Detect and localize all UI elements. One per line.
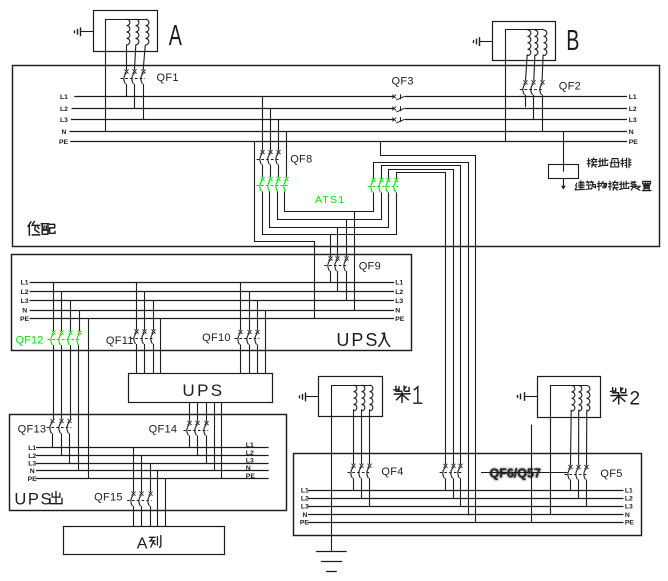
svg-text:L2: L2 [246, 450, 254, 457]
A row distribution box A列 [64, 527, 225, 555]
label 柴2 [610, 387, 640, 409]
wire L3 bus (diesel cabinet) [301, 504, 633, 511]
breaker QF14 (3-pole) [184, 421, 209, 463]
svg-text:L3: L3 [21, 298, 29, 305]
svg-text:QF9: QF9 [359, 261, 381, 273]
wire transformer B neutral to PE bus [505, 30, 507, 141]
label QF12 [16, 335, 44, 347]
svg-text:L2: L2 [301, 495, 309, 502]
svg-text:B: B [566, 25, 579, 57]
svg-text:L2: L2 [21, 289, 29, 296]
low-voltage cabinet 低配 enclosure box [13, 66, 660, 247]
label QF13 [18, 423, 47, 435]
label UPS [182, 381, 224, 400]
wire transformer B phases to QF2 [526, 55, 544, 81]
ground symbol at transformer B [474, 37, 493, 46]
transfer switch ATS1 right side (4-pole, green) [368, 178, 399, 193]
svg-text:PE: PE [59, 139, 69, 146]
svg-text:N: N [395, 308, 400, 315]
breaker QF2 (3-pole) [520, 80, 545, 131]
wire L3 bus (UPS input cabinet) [21, 298, 404, 305]
wire N bus (diesel cabinet) [303, 512, 630, 519]
UPS output cabinet box [10, 415, 287, 511]
svg-text:QF6/Q57: QF6/Q57 [490, 467, 541, 481]
wire transformer A phases to QF1 [127, 45, 146, 70]
svg-text:QF12: QF12 [16, 335, 44, 347]
svg-text:N: N [246, 465, 251, 472]
svg-text:L3: L3 [395, 298, 403, 305]
svg-text:L2: L2 [28, 453, 36, 460]
wire PE bus (UPS output cabinet) [28, 473, 269, 483]
label 建筑物接地装置 [575, 181, 651, 191]
wire 柴1 neutral down to earth [331, 385, 333, 551]
wire taps to QF10 [241, 282, 258, 330]
label UPS入 [336, 330, 389, 350]
wire taps to QF12 [54, 282, 80, 331]
svg-text:L3: L3 [28, 460, 36, 467]
svg-text:N: N [62, 129, 67, 136]
wire transformer A neutral to N bus [105, 19, 107, 131]
breaker QF9 (3-pole + N) [324, 257, 348, 301]
switch QF12 (4-pole, green) [48, 331, 82, 346]
svg-text:L3: L3 [301, 504, 309, 511]
breaker QF8 (3-pole) [257, 150, 281, 177]
wire UPS outputs down to QF14 [190, 402, 222, 478]
svg-text:QF2: QF2 [559, 81, 581, 93]
wire ATS1 output taps down to QF9 [331, 211, 355, 310]
wire L3 bus (main cabinet) [60, 117, 637, 124]
label QF9 [359, 261, 381, 273]
wire ATS1 U-link pole L3 [278, 192, 382, 220]
breaker QF10 (3-pole) [235, 330, 260, 373]
transformer B (box, winding coils, star-point) [493, 22, 556, 61]
svg-text:UPS: UPS [336, 330, 379, 350]
wire diesel feed to ATS1 right pole L3 [382, 166, 461, 465]
svg-text:A: A [169, 21, 183, 53]
label A列 [137, 535, 161, 552]
wire PE equipotential link to diesel PE [381, 142, 476, 523]
wire L3 bus (UPS output cabinet) [28, 457, 268, 467]
generator 柴2 (box, winding coils) [538, 377, 601, 418]
label 柴1 [394, 386, 423, 403]
wire L1 bus (main cabinet) [60, 94, 637, 101]
earthing electrode arrow [561, 179, 566, 190]
svg-text:QF8: QF8 [290, 153, 312, 165]
svg-text:L3: L3 [625, 504, 633, 511]
wire taps to QF11 [137, 282, 154, 330]
wire PE bus (diesel cabinet) [300, 520, 635, 527]
label 低配 [28, 221, 55, 235]
label QF3 [392, 75, 414, 87]
wire N bus to grounding busbar [563, 131, 565, 172]
svg-text:QF1: QF1 [157, 72, 179, 84]
svg-text:L1: L1 [246, 442, 254, 449]
wire L1 bus (UPS input cabinet) [21, 279, 404, 286]
wire L1 bus (diesel cabinet) [301, 487, 633, 494]
svg-text:L1: L1 [395, 279, 403, 286]
svg-text:L3: L3 [246, 457, 254, 464]
wire PE link UPS-in to UPS-out [88, 319, 90, 479]
label QF14 [149, 424, 178, 436]
wire 柴1 phases to QF4 [354, 409, 370, 464]
wire L2 bus (diesel cabinet) [301, 495, 633, 502]
wire L1 bus (UPS output cabinet) [28, 442, 268, 452]
svg-text:ATS1: ATS1 [315, 194, 345, 206]
svg-text:N: N [629, 129, 634, 136]
wire ATS1 U-link pole L1 [263, 192, 397, 235]
wire PE bus (main cabinet) [59, 139, 638, 146]
ground symbol at transformer A [75, 27, 94, 36]
svg-text:N: N [30, 468, 35, 475]
breaker QF13 (3-pole) [47, 419, 72, 463]
svg-text:L2: L2 [395, 289, 403, 296]
svg-text:QF4: QF4 [381, 466, 403, 478]
svg-text:L3: L3 [60, 117, 68, 124]
svg-text:L1: L1 [21, 279, 29, 286]
svg-text:PE: PE [395, 316, 405, 323]
wire N tap to UPS box [265, 310, 267, 373]
label QF8 [290, 153, 312, 165]
label UPS出 [14, 491, 62, 509]
svg-text:N: N [22, 308, 27, 315]
diesel distribution cabinet box [294, 454, 642, 536]
svg-text:QF13: QF13 [18, 423, 47, 435]
wire ATS1 U-link pole N [285, 192, 374, 212]
breaker QF3 bus tie [392, 94, 405, 123]
wire ATS1 U-link pole L2 [270, 192, 389, 228]
breaker QF4 (3-pole) [348, 464, 372, 507]
wire PE tap to UPS box [160, 319, 162, 374]
svg-text:L2: L2 [625, 495, 633, 502]
wire N bus (UPS input cabinet) [22, 308, 400, 315]
breaker QF11 (3-pole) [131, 330, 156, 374]
wire PE bus (UPS input cabinet) [20, 316, 405, 323]
label A [169, 21, 183, 53]
wire taps to QF15 [134, 448, 151, 493]
wire N and PE taps down to A row [158, 471, 166, 527]
breaker QF1 (3-pole) [121, 70, 146, 120]
svg-text:A: A [137, 535, 148, 552]
generator 柴1 (box, winding coils) [319, 377, 383, 417]
svg-text:QF5: QF5 [600, 468, 622, 480]
wire N bus (UPS output cabinet) [30, 465, 269, 475]
wire L2 bus (UPS input cabinet) [21, 289, 404, 296]
wire 柴2 neutral to N bus [550, 386, 552, 516]
label QF1 [157, 72, 179, 84]
label QF4 [381, 466, 403, 478]
svg-text:L3: L3 [629, 117, 637, 124]
label QF10 [202, 332, 231, 344]
wire 柴2 phases to QF5 [571, 410, 587, 466]
svg-text:L1: L1 [60, 94, 68, 101]
svg-text:QF3: QF3 [392, 75, 414, 87]
UPS unit box [129, 374, 273, 403]
wire N bus down to ATS1 pole 4 [286, 131, 288, 177]
wire taps L1,L2,L3 down to QF8 [263, 97, 279, 151]
label 接地母排 [587, 158, 631, 168]
svg-text:QF11: QF11 [106, 335, 134, 347]
wire stub to PE (near 柴2) [531, 425, 533, 523]
wire L2 bus (UPS output cabinet) [28, 450, 268, 460]
breaker QF5 (3-pole) [565, 465, 589, 506]
ground symbol at 柴1 [300, 393, 319, 402]
wire diesel feed to ATS1 right pole N [374, 163, 469, 516]
svg-text:L1: L1 [301, 487, 309, 494]
label QF11 [106, 335, 134, 347]
wire QF12 outputs down to QF13 [54, 345, 79, 471]
svg-text:N: N [625, 512, 630, 519]
label QF5 [600, 468, 622, 480]
UPS input cabinet box [12, 255, 412, 351]
svg-text:L2: L2 [60, 106, 68, 113]
ground symbol at 柴2 [518, 392, 538, 401]
svg-text:QF14: QF14 [149, 424, 178, 436]
breaker QF6/QF7 (3-pole, diesel tie) [440, 464, 463, 507]
breaker QF15 (3-pole) [127, 492, 152, 527]
svg-text:N: N [303, 512, 308, 519]
wire PE bus feed down-right into UPS-in cabinet [255, 142, 315, 319]
svg-text:PE: PE [246, 473, 256, 480]
svg-text:QF15: QF15 [94, 492, 123, 504]
svg-text:L2: L2 [629, 106, 637, 113]
label QF2 [559, 81, 581, 93]
transformer A (box, winding coils, star-point) [94, 11, 158, 52]
wire N bus (main cabinet) [62, 129, 634, 136]
svg-text:UPS: UPS [182, 381, 224, 400]
transfer switch ATS1 left side (4-pole, green) [256, 177, 288, 192]
label B [566, 25, 579, 57]
wire L2 bus (main cabinet) [60, 106, 637, 113]
svg-text:PE: PE [28, 476, 38, 483]
svg-text:UPS: UPS [14, 491, 53, 509]
svg-text:2: 2 [630, 389, 641, 410]
svg-text:PE: PE [20, 316, 30, 323]
earth ground symbol below diesel cabinet [316, 552, 347, 572]
svg-text:L1: L1 [625, 487, 633, 494]
svg-text:PE: PE [625, 520, 635, 527]
label QF15 [94, 492, 123, 504]
grounding busbar box 接地母排 [549, 165, 579, 179]
svg-text:QF10: QF10 [202, 332, 231, 344]
label ATS1 [315, 194, 345, 206]
svg-text:PE: PE [300, 520, 310, 527]
svg-text:L1: L1 [629, 94, 637, 101]
svg-text:L1: L1 [28, 445, 36, 452]
wire diesel feed to ATS1 right pole L2 [389, 170, 454, 465]
label QF6/QF7 (smudged bold) with leader line [481, 467, 567, 481]
wire diesel feed to ATS1 right pole L1 [397, 173, 446, 465]
svg-text:PE: PE [629, 139, 639, 146]
